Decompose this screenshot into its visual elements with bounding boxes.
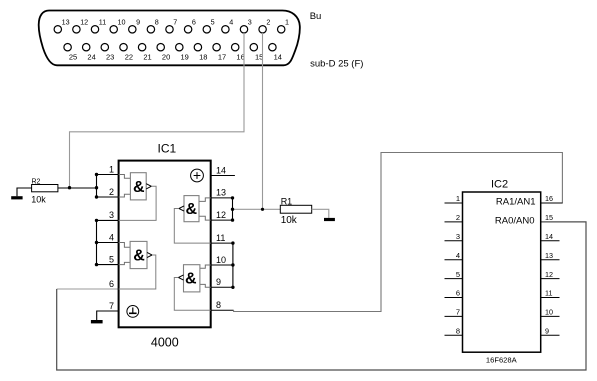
svg-text:14: 14 xyxy=(274,52,282,61)
svg-text:15: 15 xyxy=(545,213,553,222)
junction IC1 pin 1 xyxy=(95,173,98,176)
svg-text:21: 21 xyxy=(143,52,151,61)
svg-text:2: 2 xyxy=(109,187,114,197)
svg-text:9: 9 xyxy=(216,277,221,287)
IC2 pin 12 stub xyxy=(541,270,560,279)
connector pin 9 xyxy=(129,17,141,33)
svg-text:13: 13 xyxy=(62,17,70,26)
IC2 pin 16 stub xyxy=(541,194,563,203)
svg-text:12: 12 xyxy=(545,270,553,279)
svg-text:3: 3 xyxy=(248,17,252,26)
wire stub IC1 pin 7 xyxy=(97,311,119,320)
IC2 pin 9 stub xyxy=(541,327,560,336)
junction net2 mid xyxy=(231,208,234,211)
svg-text:10: 10 xyxy=(118,17,126,26)
svg-text:&: & xyxy=(185,271,197,288)
svg-text:6: 6 xyxy=(109,279,114,289)
wire stub IC1 pin 12 xyxy=(211,219,233,221)
wire top loop to IC2 pin 16 xyxy=(234,153,563,312)
svg-text:16: 16 xyxy=(545,194,553,203)
svg-text:10: 10 xyxy=(216,255,226,265)
svg-text:10k: 10k xyxy=(31,195,46,205)
connector pin 15 xyxy=(250,44,263,62)
svg-text:R1: R1 xyxy=(281,196,293,206)
svg-text:8: 8 xyxy=(216,300,221,310)
wire stub IC1 pin 4 xyxy=(97,242,119,244)
svg-text:5: 5 xyxy=(211,17,215,26)
IC2 pin 4 stub xyxy=(445,251,463,260)
ground at R2 xyxy=(11,188,31,199)
IC2 pin 7 stub xyxy=(445,308,463,317)
svg-text:4: 4 xyxy=(456,251,460,260)
wire IC1 pin 6 out left xyxy=(57,288,119,290)
connector pin 22 xyxy=(120,44,133,62)
ground at R1 xyxy=(324,218,335,221)
svg-text:7: 7 xyxy=(173,17,177,26)
svg-text:RA0/AN0: RA0/AN0 xyxy=(495,216,535,227)
svg-text:24: 24 xyxy=(87,52,95,61)
svg-text:IC2: IC2 xyxy=(491,179,508,191)
svg-text:22: 22 xyxy=(125,52,133,61)
connector pin 16 xyxy=(232,44,245,62)
svg-text:8: 8 xyxy=(155,17,159,26)
connector pin 14 xyxy=(269,44,282,62)
svg-text:17: 17 xyxy=(218,52,226,61)
svg-text:Bu: Bu xyxy=(310,11,322,22)
connector pin 1 xyxy=(278,17,290,33)
svg-text:3: 3 xyxy=(109,210,114,220)
svg-text:11: 11 xyxy=(545,289,552,298)
gate U1C inputs pins 4,5 output pin 6 xyxy=(119,241,156,289)
wire connector pin 3 down, left and down to node R2 xyxy=(70,33,245,188)
wire bar pins 3-4-5 xyxy=(96,220,98,264)
wire stub IC1 pin 13 xyxy=(211,197,233,199)
connector pin 12 xyxy=(73,17,88,33)
connector pin 17 xyxy=(213,44,226,62)
connector pin 19 xyxy=(176,44,189,62)
IC IC2 body xyxy=(463,192,541,352)
connector pin 6 xyxy=(184,17,195,33)
connector pin 13 xyxy=(54,17,70,33)
connector pin 4 xyxy=(222,17,234,33)
ground at IC1 pin 7 xyxy=(91,320,103,323)
connector pin 10 xyxy=(110,17,126,33)
svg-text:18: 18 xyxy=(199,52,207,61)
wire R2 to IC1 pins 1,2 bar xyxy=(58,175,97,198)
wire stub IC1 pin 1 xyxy=(97,174,119,176)
wire stub IC1 pin 14 xyxy=(211,175,235,177)
svg-text:7: 7 xyxy=(456,308,460,317)
svg-text:23: 23 xyxy=(106,52,114,61)
IC2 pin 6 stub xyxy=(445,289,463,298)
svg-text:12: 12 xyxy=(80,17,88,26)
connector pin 20 xyxy=(157,44,170,62)
IC2 pin 8 stub xyxy=(445,327,463,336)
IC2 pin 3 stub xyxy=(445,232,463,241)
svg-text:6: 6 xyxy=(456,289,460,298)
junction IC1 pin 9 xyxy=(231,286,234,289)
wire stub IC1 pin 9 xyxy=(211,286,233,288)
IC2 pin 15 stub xyxy=(545,213,553,222)
svg-text:&: & xyxy=(133,179,145,196)
wire stub IC1 pin 2 xyxy=(97,196,119,198)
junction IC1 pin 11 xyxy=(231,241,234,244)
svg-text:10k: 10k xyxy=(281,215,298,226)
junction IC1 pin 5 xyxy=(95,263,98,266)
svg-text:1: 1 xyxy=(109,164,114,174)
svg-text:14: 14 xyxy=(216,165,226,175)
svg-text:11: 11 xyxy=(216,233,225,243)
connector Bu sub-D 25 outline xyxy=(39,11,300,66)
IC2 pin 14 stub xyxy=(541,232,560,241)
svg-text:5: 5 xyxy=(109,254,114,264)
svg-text:25: 25 xyxy=(69,52,77,61)
IC2 pin 10 stub xyxy=(541,308,560,317)
junction IC1 pin 2 xyxy=(95,195,98,198)
svg-text:12: 12 xyxy=(216,210,226,220)
IC2 pin 13 stub xyxy=(541,251,560,260)
svg-text:11: 11 xyxy=(99,17,106,26)
svg-text:8: 8 xyxy=(456,327,460,336)
gate U1D inputs pins 10,9 output pin 8 xyxy=(174,265,210,311)
resistor R1 xyxy=(280,196,311,226)
junction IC1 pin 10 xyxy=(231,263,234,266)
gate U1A inputs pins 1,2 output pin 3 xyxy=(119,173,157,221)
svg-text:4: 4 xyxy=(109,232,114,242)
svg-text:sub-D 25 (F): sub-D 25 (F) xyxy=(310,59,363,70)
wire stub IC1 pin 10 xyxy=(211,264,233,266)
gate U1B inputs pins 13,12 output pin 11 xyxy=(174,196,210,244)
wire bottom loop to IC2 pin 15 xyxy=(57,222,586,370)
IC2 pin 5 stub xyxy=(445,270,463,279)
connector pin 24 xyxy=(83,44,96,62)
svg-text:13: 13 xyxy=(216,188,226,198)
svg-text:4000: 4000 xyxy=(151,336,179,350)
junction net1 bar mid xyxy=(95,186,98,189)
svg-text:2: 2 xyxy=(266,17,270,26)
svg-text:10: 10 xyxy=(545,308,553,317)
wire IC1 pins13/12 to R1 xyxy=(233,208,281,210)
connector pin 18 xyxy=(194,44,207,62)
svg-text:5: 5 xyxy=(456,270,460,279)
svg-text:9: 9 xyxy=(545,327,549,336)
junction node R2/net1 xyxy=(68,186,71,189)
junction net2/pin2 wire xyxy=(261,208,264,211)
svg-text:&: & xyxy=(186,201,198,218)
ground symbol at IC1 pin 7 xyxy=(127,306,139,318)
connector pin 5 xyxy=(203,17,215,33)
wire bar pins 13-12 xyxy=(232,198,234,220)
svg-text:IC1: IC1 xyxy=(158,142,177,156)
svg-text:6: 6 xyxy=(192,17,196,26)
svg-text:19: 19 xyxy=(181,52,189,61)
wire stub IC1 pin 8 xyxy=(211,309,234,311)
wire connector pin 2 down to R1 net xyxy=(262,33,264,209)
junction IC1 pin 12 xyxy=(231,218,234,221)
svg-text:3: 3 xyxy=(456,232,460,241)
wire R1 to ground xyxy=(312,209,329,218)
svg-text:7: 7 xyxy=(109,301,114,311)
connector pin 2 xyxy=(259,17,271,33)
power symbol at IC1 pin 14 xyxy=(191,169,204,182)
connector pin 11 xyxy=(91,17,106,33)
junction IC1 pin 3 xyxy=(95,219,98,222)
svg-text:R2: R2 xyxy=(32,179,41,186)
IC2 pin 1 stub xyxy=(445,194,463,203)
connector pin 21 xyxy=(138,44,151,62)
svg-text:16F628A: 16F628A xyxy=(486,356,518,365)
junction IC1 pin 13 xyxy=(231,196,234,199)
svg-text:20: 20 xyxy=(162,52,170,61)
IC IC1 body xyxy=(119,161,211,328)
connector pin 3 xyxy=(240,17,252,33)
svg-text:&: & xyxy=(133,248,145,265)
IC2 pin 11 stub xyxy=(541,289,560,298)
IC2 pin 2 stub xyxy=(445,213,463,222)
connector pin 25 xyxy=(64,44,77,62)
resistor R2 xyxy=(31,179,58,205)
svg-text:1: 1 xyxy=(285,17,289,26)
svg-text:1: 1 xyxy=(456,194,460,203)
svg-text:4: 4 xyxy=(229,17,233,26)
connector pin 8 xyxy=(147,17,159,33)
wire bar pins 11-10-9 xyxy=(232,243,234,287)
junction IC1 pin 4 xyxy=(95,241,98,244)
wire stub IC1 pin 5 xyxy=(97,264,119,266)
svg-text:RA1/AN1: RA1/AN1 xyxy=(496,197,536,208)
svg-text:2: 2 xyxy=(456,213,460,222)
svg-text:9: 9 xyxy=(136,17,140,26)
connector pin 23 xyxy=(101,44,114,62)
wire stub IC1 pin 11 xyxy=(211,242,233,244)
svg-text:13: 13 xyxy=(545,251,553,260)
svg-text:14: 14 xyxy=(545,232,553,241)
connector pin 7 xyxy=(166,17,178,33)
wire stub IC1 pin 3 xyxy=(97,219,119,221)
